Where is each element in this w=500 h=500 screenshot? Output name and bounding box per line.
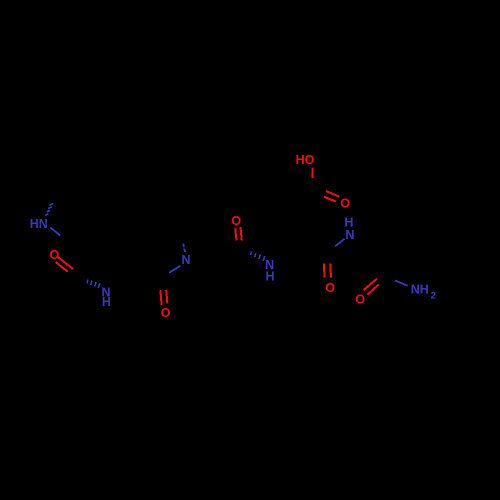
- svg-text:O: O: [340, 196, 350, 210]
- svg-text:O: O: [325, 281, 335, 295]
- formyl C=O double bond: [160, 290, 161, 305]
- bond from HO down to carboxyl C: [311, 168, 313, 179]
- svg-text:H: H: [265, 270, 274, 284]
- svg-text:H: H: [102, 295, 111, 309]
- bond from ring N down-left to formyl C: [169, 266, 180, 273]
- Asp backbone C=O double bond: [323, 264, 326, 278]
- svg-text:O: O: [161, 306, 171, 320]
- bond from terminal amide C to NH2: [395, 280, 408, 285]
- C=O double bond of central amide: [235, 228, 236, 240]
- carboxyl C=O double bond: [326, 191, 340, 197]
- hashed stub from ring N up: [183, 244, 185, 253]
- svg-text:N: N: [345, 228, 354, 242]
- svg-text:NH: NH: [411, 283, 429, 297]
- hashed wedge from HN up to ring carbon: [45, 204, 53, 216]
- svg-text:O: O: [355, 292, 365, 306]
- hashed wedge from central carbonyl C to amide N: [251, 251, 265, 261]
- terminal amide C=O double bond: [364, 279, 377, 290]
- hashed wedge from carbonyl C to amide N: [87, 280, 100, 288]
- bond from HN down-right to ring carbon: [50, 228, 60, 236]
- bond from right amide N down-left to carbonyl C: [335, 239, 345, 247]
- svg-text:HN: HN: [30, 217, 48, 231]
- svg-text:2: 2: [431, 290, 436, 301]
- svg-text:O: O: [231, 214, 241, 228]
- svg-text:N: N: [181, 253, 190, 267]
- svg-text:O: O: [50, 248, 60, 262]
- C=O double bond of left amide: [57, 256, 73, 269]
- svg-text:HO: HO: [296, 153, 315, 167]
